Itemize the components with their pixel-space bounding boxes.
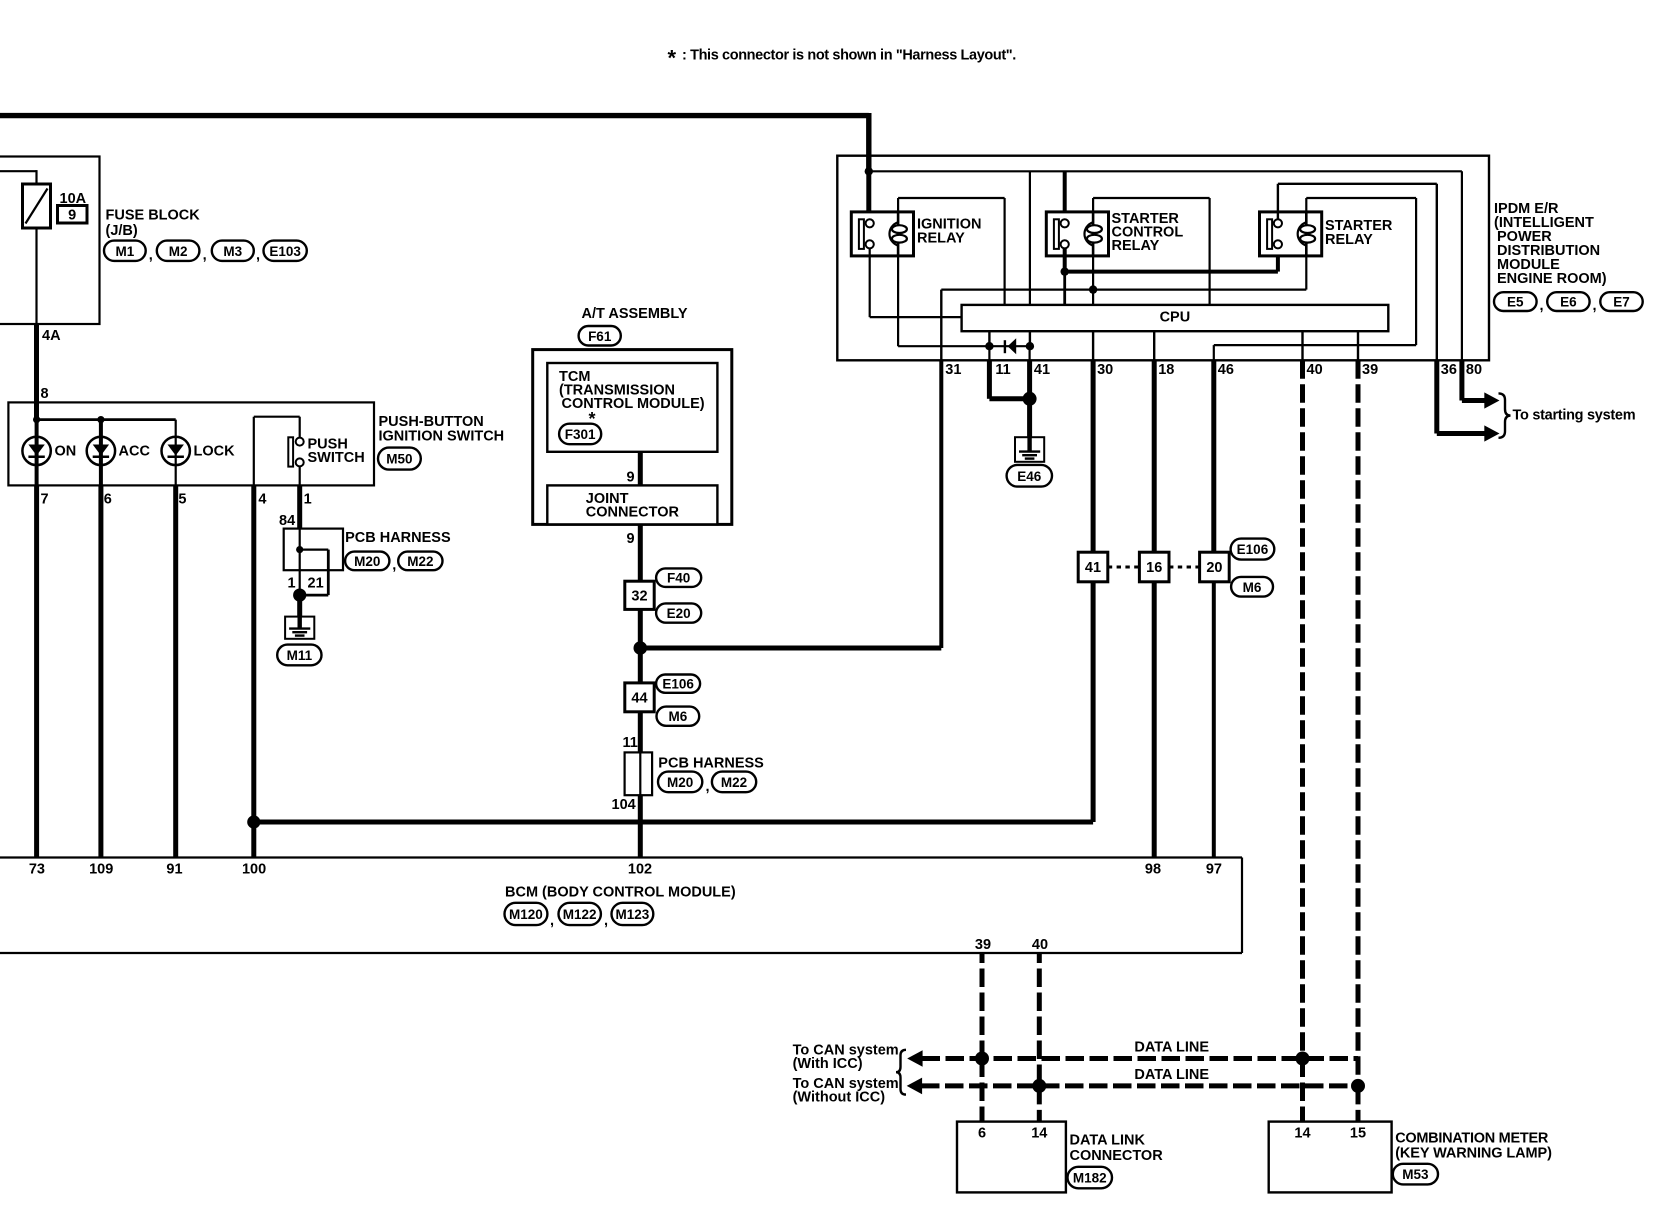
connector F61 — [579, 326, 621, 346]
svg-text:16: 16 — [1146, 560, 1162, 576]
pin 97 (BCM) — [1206, 861, 1222, 877]
svg-text:E106: E106 — [1237, 542, 1269, 557]
wire: BCM 39 CAN (dashed) — [980, 953, 985, 1122]
svg-text:39: 39 — [975, 937, 991, 953]
PCB harness box (M20/M22) — [284, 529, 343, 571]
brace CAN system — [896, 1050, 906, 1095]
svg-text:LOCK: LOCK — [194, 444, 236, 460]
pin 84 — [279, 513, 295, 529]
combination meter box — [1269, 1122, 1392, 1193]
wire: 16 to BCM 98 (thick) — [1152, 582, 1157, 858]
svg-text:DATA LINK: DATA LINK — [1070, 1132, 1146, 1148]
label PUSH-BUTTON IGNITION SWITCH — [379, 414, 505, 444]
svg-text:PCB HARNESS: PCB HARNESS — [345, 530, 451, 546]
svg-text:FUSE BLOCK: FUSE BLOCK — [106, 208, 201, 224]
wire: pin 5 to BCM 91 (thick) — [173, 485, 178, 857]
svg-text:To starting system: To starting system — [1513, 408, 1636, 424]
wire: battery feed (thick) to IPDM — [0, 113, 869, 171]
pin 21 — [308, 576, 324, 592]
svg-text:97: 97 — [1206, 861, 1222, 877]
svg-text:RELAY: RELAY — [1325, 232, 1373, 248]
svg-text:DATA LINE: DATA LINE — [1134, 1040, 1209, 1056]
wire: IPDM 30 to connector 41 (thick) — [1091, 360, 1096, 552]
svg-text:A/T ASSEMBLY: A/T ASSEMBLY — [582, 306, 688, 322]
connector M50 — [378, 448, 421, 470]
svg-text:F40: F40 — [667, 571, 690, 586]
pin 15 (meter) — [1350, 1125, 1366, 1141]
pin 80 (IPDM) — [1466, 362, 1482, 378]
label PCB HARNESS (2) — [658, 756, 764, 772]
connector M122 — [550, 903, 601, 929]
svg-text:41: 41 — [1034, 362, 1050, 378]
svg-text:,: , — [203, 248, 207, 264]
CPU box — [962, 305, 1389, 331]
node: junction at ON LED — [33, 416, 40, 423]
svg-text:5: 5 — [178, 492, 186, 508]
label DATA LINE (upper) — [1134, 1040, 1209, 1056]
label PUSH SWITCH — [308, 436, 365, 466]
wire: pin 41 to ground (thick) — [1028, 346, 1030, 437]
pin 6 — [104, 492, 112, 508]
svg-text:M53: M53 — [1402, 1167, 1429, 1182]
A/T assembly box — [533, 350, 732, 525]
wire: pin 41 top section — [1029, 171, 1031, 305]
connector M6 — [1231, 577, 1273, 597]
arrow to starting system (upper) — [1484, 392, 1499, 408]
svg-text:ENGINE ROOM): ENGINE ROOM) — [1497, 271, 1607, 287]
connector M1 — [104, 241, 146, 261]
label STARTER RELAY — [1325, 218, 1393, 248]
note: asterisk annotation — [668, 46, 1017, 71]
pin 39 (IPDM) — [1362, 362, 1378, 378]
label IGNITION RELAY — [917, 217, 981, 247]
svg-text:CONTROL MODULE): CONTROL MODULE) — [562, 396, 705, 412]
pin 39 (BCM) — [975, 937, 991, 953]
node: junction CAN upper/BCM39 — [975, 1052, 989, 1066]
data link connector box — [957, 1122, 1066, 1193]
wire: pin 11 CPU to diode node — [988, 331, 990, 346]
svg-text:M50: M50 — [386, 452, 412, 467]
connector E20 — [656, 603, 701, 622]
pin 6 (DLC) — [978, 1125, 986, 1141]
wire: SC relay contact to starter relay contact — [1065, 248, 1278, 271]
node: diode anode junction — [1026, 342, 1034, 350]
svg-text:40: 40 — [1032, 937, 1048, 953]
wire: 20 to BCM 97 (thick) — [1212, 582, 1216, 858]
node: diode cathode junction — [985, 342, 993, 350]
svg-text:41: 41 — [1085, 560, 1101, 576]
wire: 104 to BCM 102 (thick) — [638, 795, 643, 857]
push-button ignition switch box — [8, 402, 374, 485]
svg-text:36: 36 — [1441, 362, 1457, 378]
svg-text:14: 14 — [1294, 1125, 1310, 1141]
pin 46 (IPDM) — [1218, 362, 1234, 378]
wire: fuse to 4A — [35, 228, 37, 324]
svg-text:ACC: ACC — [119, 444, 151, 460]
svg-text:84: 84 — [279, 513, 295, 529]
connector M3 — [203, 241, 254, 264]
pin 18 (IPDM) — [1158, 362, 1174, 378]
pin 30 (IPDM) — [1097, 362, 1113, 378]
connector E103 — [256, 241, 307, 264]
node: junction inside PCB harness — [296, 546, 303, 553]
asterisk for F301 — [589, 409, 596, 429]
connector F40 — [656, 568, 701, 587]
pin 109 (BCM) — [89, 861, 113, 877]
svg-text:32: 32 — [631, 589, 647, 605]
svg-text:,: , — [706, 779, 710, 795]
wire: 41 to BCM junction (thick) — [254, 582, 1093, 822]
svg-text:,: , — [1540, 298, 1544, 314]
label To CAN system (With ICC) — [793, 1043, 899, 1073]
pin 4 — [258, 492, 266, 508]
svg-text:ON: ON — [55, 444, 77, 460]
node: junction SC contact/CPU — [1061, 267, 1069, 275]
pin 1 (PCB harness) — [288, 576, 296, 592]
connector M22 (2) — [706, 772, 757, 795]
svg-text:4A: 4A — [42, 328, 61, 344]
inline connector 32 — [625, 581, 654, 609]
PCB harness pass-through box — [625, 752, 653, 795]
wire: starter relay contact to pin 36 — [1278, 184, 1437, 360]
svg-text:104: 104 — [612, 797, 636, 813]
wire: power to starter control relay contact (thick) — [1063, 171, 1067, 219]
svg-text:1: 1 — [288, 576, 296, 592]
svg-text:21: 21 — [308, 576, 324, 592]
svg-text:F301: F301 — [565, 427, 596, 442]
wire: ignition relay coil low side to diode node — [898, 256, 989, 346]
wire: pin 41 CPU to diode node — [1029, 331, 1031, 346]
connector E46 — [1007, 465, 1052, 487]
svg-text:,: , — [1593, 298, 1597, 314]
wire: data line lower (dashed) — [921, 1083, 1358, 1088]
wire: pin 36 to starting system (thick) — [1437, 360, 1485, 433]
label To starting system — [1513, 408, 1636, 424]
svg-text:20: 20 — [1206, 560, 1222, 576]
wire: pin 31 rail to starter relay coil — [941, 256, 1306, 360]
svg-text:IGNITION SWITCH: IGNITION SWITCH — [379, 428, 505, 444]
wire: inside PCB harness — [300, 529, 329, 596]
svg-text:1: 1 — [304, 492, 312, 508]
svg-text:109: 109 — [89, 861, 113, 877]
svg-text:M3: M3 — [223, 244, 242, 259]
inline connector 44 — [625, 683, 654, 712]
label A/T ASSEMBLY — [582, 306, 688, 322]
wire: IPDM pin 18 — [1153, 331, 1155, 360]
ignition relay — [851, 212, 913, 256]
pin 91 (BCM) — [166, 861, 182, 877]
node: ground junction — [293, 589, 306, 602]
pin 14 (DLC) — [1031, 1125, 1047, 1141]
wire: IPDM 39 CAN (dashed) — [1356, 360, 1361, 1121]
svg-text:E5: E5 — [1507, 295, 1524, 310]
connector E106 — [1231, 539, 1275, 560]
pin 41 (IPDM) — [1034, 362, 1050, 378]
inline connector 20 — [1200, 552, 1230, 582]
svg-text:7: 7 — [41, 492, 49, 508]
svg-text:,: , — [604, 913, 608, 929]
wire: 32 to junction (thick) — [638, 609, 643, 648]
svg-text:E7: E7 — [1613, 295, 1630, 310]
label STARTER CONTROL RELAY — [1112, 211, 1184, 254]
wire: feed into fuse — [0, 170, 37, 184]
starter control relay — [1046, 212, 1108, 256]
wire: pin 4 to BCM 100 (thick) — [251, 485, 256, 857]
svg-text:(With ICC): (With ICC) — [793, 1056, 863, 1072]
svg-text:6: 6 — [978, 1125, 986, 1141]
svg-text:*: * — [668, 46, 677, 71]
wire: to ground junction — [299, 570, 301, 595]
pin 8 — [41, 386, 49, 402]
svg-text:,: , — [149, 248, 153, 264]
svg-text:E103: E103 — [269, 244, 301, 259]
BCM (body control module) box — [0, 858, 1242, 954]
svg-text:100: 100 — [242, 861, 266, 877]
node: junction CAN lower/IPDM39 — [1351, 1079, 1365, 1093]
svg-text:6: 6 — [104, 492, 112, 508]
inline connector 16 — [1139, 552, 1169, 582]
svg-text:M22: M22 — [721, 775, 747, 790]
wire: BCM 40 CAN (dashed) — [1037, 953, 1042, 1122]
connector E6 — [1540, 292, 1590, 314]
label FUSE BLOCK (J/B) — [106, 208, 201, 240]
pin 100 (BCM) — [242, 861, 266, 877]
IPDM E/R box — [837, 156, 1489, 361]
LED LOCK indicator — [162, 420, 236, 486]
svg-text:COMBINATION METER: COMBINATION METER — [1395, 1130, 1549, 1146]
svg-text:,: , — [256, 248, 260, 264]
svg-text:M122: M122 — [563, 907, 597, 922]
pin 5 — [178, 492, 186, 508]
connector E5 — [1494, 292, 1537, 311]
connector M20 (2) — [658, 772, 702, 793]
svg-text:M22: M22 — [407, 554, 433, 569]
wire: TCM pin 9 to joint connector (thick) — [638, 452, 643, 486]
svg-text:M11: M11 — [287, 648, 313, 663]
svg-text:M123: M123 — [616, 907, 650, 922]
wire: data line upper (dashed) — [922, 1056, 1359, 1061]
wire: LED branch bus — [37, 418, 176, 421]
connector M123 — [604, 903, 653, 929]
svg-text:,: , — [550, 913, 554, 929]
wire: pin 11 to ground junction (thick) — [989, 346, 1029, 399]
label PCB HARNESS — [345, 530, 451, 546]
svg-text:M120: M120 — [509, 907, 543, 922]
wire: pin 7 to BCM 73 (thick) — [34, 485, 39, 857]
connector M2 — [149, 241, 200, 264]
node: junction CAN lower/BCM40 — [1032, 1079, 1046, 1093]
label 10A — [60, 191, 87, 207]
svg-text:98: 98 — [1145, 861, 1161, 877]
wire: IPDM 46 to connector 20 (thick) — [1211, 360, 1216, 552]
LED ACC indicator — [87, 420, 151, 486]
wire: IPDM pin 30 — [1092, 331, 1094, 360]
fuse block (J/B) box — [0, 157, 100, 325]
pin 40 (BCM) — [1032, 937, 1048, 953]
svg-text:44: 44 — [631, 691, 647, 707]
svg-text:40: 40 — [1307, 362, 1323, 378]
svg-text:SWITCH: SWITCH — [308, 450, 365, 466]
svg-text:RELAY: RELAY — [917, 230, 965, 246]
svg-text:M1: M1 — [115, 244, 134, 259]
pin 11 (IPDM) — [995, 362, 1010, 378]
label DATA LINE (lower) — [1134, 1067, 1209, 1083]
svg-text:E6: E6 — [1560, 295, 1577, 310]
wire: junction to 44 (thick) — [638, 648, 643, 683]
svg-text:14: 14 — [1031, 1125, 1047, 1141]
connector M120 — [505, 903, 548, 925]
pin 31 (IPDM) — [945, 362, 961, 378]
pin 7 — [41, 492, 49, 508]
wire: power to ignition relay contact (thick) — [866, 171, 871, 219]
node: junction at ACC LED — [97, 416, 104, 423]
pin 102 (BCM) — [628, 861, 652, 877]
wire: junction down to CPU — [1063, 272, 1066, 305]
svg-text:F61: F61 — [588, 329, 612, 344]
wire: SC relay coil low side to CPU/pin30 — [1092, 256, 1094, 305]
svg-text:11: 11 — [995, 362, 1010, 378]
node: ground junction E46 — [1023, 392, 1037, 406]
brace to starting system — [1499, 393, 1511, 437]
wire: SC relay coil drive from CPU — [1093, 198, 1210, 305]
LED ON indicator — [22, 420, 76, 486]
svg-text:DATA LINE: DATA LINE — [1134, 1067, 1209, 1083]
ground M11 — [285, 617, 314, 639]
wire: pin 1 down to PCB harness (thick) — [297, 485, 302, 528]
pin 9 (TCM) — [627, 470, 635, 486]
svg-text:CONNECTOR: CONNECTOR — [1070, 1148, 1164, 1164]
connector M11 — [277, 645, 321, 666]
svg-text:31: 31 — [945, 362, 961, 378]
connector M53 — [1393, 1164, 1438, 1185]
svg-text:M6: M6 — [668, 709, 687, 724]
svg-text:CONNECTOR: CONNECTOR — [586, 505, 680, 521]
connector F301 — [559, 424, 601, 445]
wire: junction to ground M11 (thick) — [297, 595, 302, 617]
push switch contact — [254, 417, 304, 486]
joint connector box — [547, 485, 717, 524]
ground E46 — [1015, 437, 1044, 462]
arrow to CAN (with ICC) — [907, 1050, 922, 1067]
svg-text:CPU: CPU — [1160, 310, 1191, 326]
svg-text:4: 4 — [258, 492, 266, 508]
svg-text:E46: E46 — [1017, 469, 1042, 484]
label TCM (TRANSMISSION CONTROL MODULE) — [559, 369, 705, 412]
pin 9 (joint connector) — [627, 531, 635, 547]
svg-text:: This connector is not shown: : This connector is not shown in "Harnes… — [682, 48, 1016, 64]
node: junction coil rail — [1089, 285, 1097, 293]
svg-text:15: 15 — [1350, 1125, 1366, 1141]
wire: 4A to switch pin 8 (thick) — [34, 324, 39, 420]
dashed link 16-20 — [1169, 566, 1200, 569]
wire: pin 80 to starting system (thick) — [1462, 360, 1485, 400]
wire: joint connector pin 9 down (thick) — [638, 524, 643, 581]
svg-text:91: 91 — [166, 861, 182, 877]
connector E106 (mid) — [656, 675, 700, 693]
svg-text:73: 73 — [29, 861, 45, 877]
svg-text:(KEY WARNING LAMP): (KEY WARNING LAMP) — [1395, 1146, 1552, 1162]
svg-text:RELAY: RELAY — [1112, 238, 1160, 254]
wire: power bus inside IPDM — [869, 170, 1462, 172]
node: junction CAN upper/IPDM40 — [1296, 1052, 1310, 1066]
svg-text:M2: M2 — [169, 244, 188, 259]
wire: starter relay coil drive around CPU to pin 46 — [1214, 198, 1416, 360]
wire: ignition relay coil drive from CPU — [898, 198, 1005, 305]
TCM box — [547, 363, 717, 452]
fuse number 9 box — [58, 206, 88, 224]
label BCM (BODY CONTROL MODULE) — [505, 885, 736, 901]
wire: 44 to PCB harness 11 (thick) — [638, 712, 643, 753]
arrow to CAN (without ICC) — [907, 1078, 922, 1095]
connector E7 — [1593, 292, 1643, 314]
arrow to starting system (lower) — [1484, 425, 1499, 441]
svg-text:18: 18 — [1158, 362, 1174, 378]
fuse 10A No.9 — [23, 184, 51, 228]
wire: IPDM 18 to connector 16 (thick) — [1152, 360, 1157, 552]
pin 11 (PCB harness) — [623, 735, 638, 751]
svg-text:30: 30 — [1097, 362, 1113, 378]
wire: IPDM pin 40 (CAN) — [1301, 331, 1303, 360]
dashed link 41-16 — [1108, 566, 1140, 569]
node: junction at IPDM power entry — [865, 167, 873, 175]
svg-text:102: 102 — [628, 861, 652, 877]
svg-text:9: 9 — [627, 470, 635, 486]
connector M20 — [345, 552, 389, 571]
wire: IPDM pin 39 (CAN) — [1357, 331, 1359, 360]
svg-text:9: 9 — [627, 531, 635, 547]
wire: junction to IPDM pin 31 (thick) — [640, 360, 941, 648]
svg-text:PCB HARNESS: PCB HARNESS — [658, 756, 764, 772]
svg-text:M6: M6 — [1243, 580, 1262, 595]
label To CAN system (Without ICC) — [793, 1076, 899, 1106]
connector M182 — [1068, 1167, 1113, 1189]
svg-text:BCM (BODY CONTROL MODULE): BCM (BODY CONTROL MODULE) — [505, 885, 736, 901]
svg-text:11: 11 — [623, 735, 638, 751]
label 4A — [42, 328, 61, 344]
pin 36 (IPDM) — [1441, 362, 1457, 378]
wire: IPDM 40 CAN (dashed) — [1300, 360, 1305, 1121]
wire: IPDM pin 80 — [1461, 171, 1463, 360]
svg-text:9: 9 — [68, 208, 76, 224]
svg-text:(J/B): (J/B) — [106, 223, 138, 239]
pin 104 — [612, 797, 636, 813]
svg-text:E20: E20 — [667, 606, 691, 621]
svg-text:M20: M20 — [354, 554, 380, 569]
svg-text:E106: E106 — [662, 677, 694, 692]
node: junction to BCM pin 100 — [247, 815, 260, 828]
pin 1 — [304, 492, 312, 508]
svg-text:M20: M20 — [667, 775, 693, 790]
starter relay — [1260, 212, 1322, 256]
svg-text:,: , — [392, 558, 396, 574]
svg-text:(Without ICC): (Without ICC) — [793, 1089, 886, 1105]
svg-text:M182: M182 — [1073, 1171, 1107, 1186]
inline connector 41 — [1078, 552, 1108, 582]
wire: pin 6 to BCM 109 (thick) — [98, 485, 103, 857]
svg-text:46: 46 — [1218, 362, 1234, 378]
pin 98 (BCM) — [1145, 861, 1161, 877]
label COMBINATION METER (KEY WARNING LAMP) — [1395, 1130, 1552, 1161]
connector M22 — [392, 552, 442, 574]
svg-text:39: 39 — [1362, 362, 1378, 378]
pin 40 (IPDM) — [1307, 362, 1323, 378]
label IPDM E/R (INTELLIGENT POWER DISTRIBUTION MODULE ENGINE ROOM) — [1494, 201, 1607, 287]
label DATA LINK CONNECTOR — [1070, 1132, 1164, 1164]
diode D1 — [989, 338, 1030, 354]
svg-text:8: 8 — [41, 386, 49, 402]
node: junction at TCM power branch — [634, 641, 648, 655]
pin 73 (BCM) — [29, 861, 45, 877]
